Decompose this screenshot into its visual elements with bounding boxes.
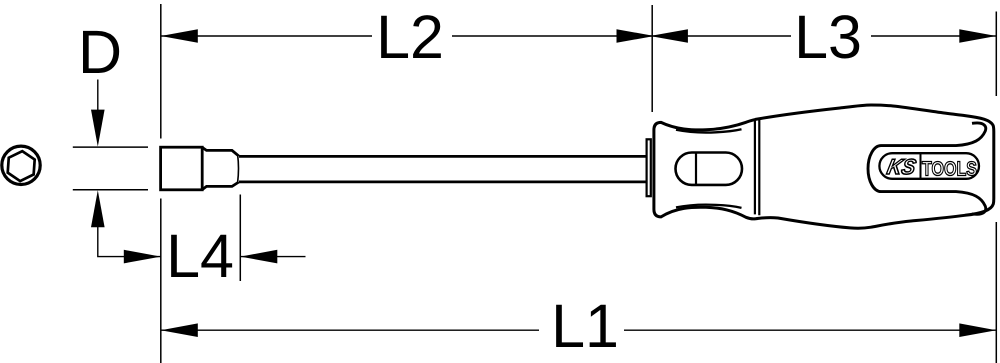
L2 right arrow bbox=[617, 29, 655, 43]
socket mid section bbox=[202, 147, 239, 189]
left extension line (upper) bbox=[160, 4, 162, 139]
logo KS/TOOLS divider bbox=[920, 153, 922, 179]
L1 left arrow bbox=[161, 323, 198, 337]
D dimension: upper extension line bbox=[73, 146, 148, 148]
D dimension: down arrow bbox=[91, 110, 105, 147]
L2 dimension line right segment bbox=[452, 35, 652, 37]
grip inner top arc bbox=[676, 129, 742, 132]
L1 right arrow bbox=[959, 323, 996, 337]
L2 dimension line left segment bbox=[161, 35, 372, 37]
socket neck arc bbox=[237, 155, 240, 183]
shaft top line bbox=[239, 155, 647, 158]
D dimension: lower extension line bbox=[73, 189, 148, 191]
left extension line (lower) bbox=[160, 199, 162, 363]
L1 dimension line left segment bbox=[161, 329, 539, 331]
D dimension: up arrow bbox=[91, 190, 105, 227]
logo KS text bbox=[885, 154, 919, 179]
svg-text:TOOLS: TOOLS bbox=[922, 158, 977, 181]
L4 right arrow (points left) bbox=[240, 250, 277, 264]
L4 right extension line bbox=[239, 195, 241, 282]
L4 left arrow (points right) bbox=[124, 250, 161, 264]
middle extension line (L2/L3 boundary) bbox=[651, 5, 653, 112]
grip inner bottom arc bbox=[676, 205, 742, 208]
shaft bottom line bbox=[239, 180, 647, 183]
grip stadium hole bbox=[676, 153, 743, 185]
logo stadium bbox=[879, 153, 979, 179]
L4 right leader line bbox=[240, 256, 305, 258]
L3 right arrow bbox=[959, 29, 996, 43]
svg-text:L2: L2 bbox=[376, 3, 444, 71]
right extension line (lower) bbox=[995, 222, 997, 363]
socket head bbox=[161, 147, 203, 190]
L3 dimension line right segment bbox=[871, 35, 996, 37]
right extension line (upper) bbox=[995, 12, 997, 97]
svg-text:D: D bbox=[78, 18, 122, 86]
grip stadium divider bbox=[695, 153, 697, 185]
hex socket end view: hexagon bbox=[7, 150, 35, 182]
L3 dimension line left segment bbox=[652, 35, 791, 37]
collar step bbox=[647, 139, 651, 196]
handle silhouette bbox=[654, 105, 994, 228]
svg-text:L3: L3 bbox=[794, 3, 862, 71]
L2 left arrow bbox=[161, 29, 198, 43]
svg-text:KS: KS bbox=[885, 154, 919, 179]
svg-text:L1: L1 bbox=[551, 292, 619, 360]
handle seam line 1 bbox=[754, 121, 756, 215]
hex socket end view: outer circle bbox=[2, 146, 40, 184]
D dimension: upper leader line bbox=[97, 80, 99, 113]
L1 dimension line right segment bbox=[624, 329, 996, 331]
svg-text:L4: L4 bbox=[166, 222, 234, 290]
D-to-L4 leader elbow bbox=[98, 226, 161, 257]
handle seam line 2 bbox=[758, 120, 760, 215]
L3 left arrow bbox=[650, 29, 688, 43]
logo plate bbox=[868, 123, 986, 214]
